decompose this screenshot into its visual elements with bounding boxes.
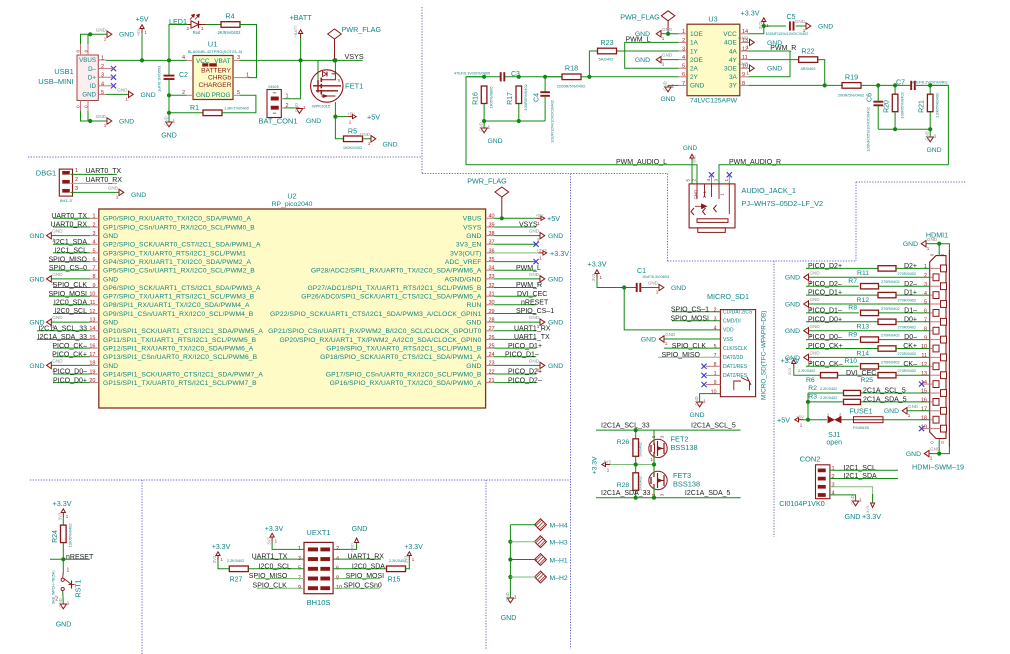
svg-text:GP12/SPI1_RX/UART0_TX/I2C0_SDA: GP12/SPI1_RX/UART0_TX/I2C0_SDA/PWM6_A <box>103 346 254 353</box>
ground symbol top shield <box>107 31 112 37</box>
svg-text:GND: GND <box>908 404 919 409</box>
svg-text:C6: C6 <box>867 93 874 102</box>
svg-text:PICO_CK+: PICO_CK+ <box>808 343 843 350</box>
svg-text:5: 5 <box>714 344 717 350</box>
svg-text:GND: GND <box>810 351 821 356</box>
ground symbol at U3 pin10 <box>748 67 749 69</box>
wire FET1 drain to VSYS <box>334 60 336 70</box>
svg-text:2: 2 <box>924 273 927 279</box>
svg-text:5: 5 <box>924 300 927 306</box>
net label SPIO_MISO UEXT pin7 <box>255 578 304 580</box>
svg-text:10UF/10%/10VDC/0402: 10UF/10%/10VDC/0402 <box>550 99 555 143</box>
svg-text:GP20/SPIO_RX/UART1_TX/PWM2_A/I: GP20/SPIO_RX/UART1_TX/PWM2_A/I2C0_SDA/CL… <box>280 337 482 344</box>
svg-text:GND: GND <box>56 622 72 629</box>
svg-text:PROG: PROG <box>212 92 231 99</box>
net label SPIO_CLK UEXT pin9 <box>257 587 304 589</box>
svg-text:GND: GND <box>306 118 321 125</box>
svg-text:I2C1_SDA: I2C1_SDA <box>54 239 87 246</box>
svg-text:16: 16 <box>921 398 927 404</box>
section border dashed lines <box>28 156 422 158</box>
svg-text:GND: GND <box>196 92 211 99</box>
capacitor C3 <box>500 72 502 81</box>
svg-text:GND: GND <box>665 332 676 337</box>
svg-text:8: 8 <box>924 326 927 332</box>
no-connect HDMI pin14 <box>923 383 930 385</box>
net label UART1_TX UEXT pin3 <box>254 558 304 560</box>
svg-text:GP16/SPIO_RX/UART0_TX/I2C0_SDA: GP16/SPIO_RX/UART0_TX/I2C0_SDA/PWM0_A <box>330 380 482 387</box>
svg-text:GP3/SPIO_TX/UART0_RTS/I2C1_SCL: GP3/SPIO_TX/UART0_RTS/I2C1_SCL/PWM1 <box>103 250 246 257</box>
node VBUS rail <box>106 59 187 61</box>
svg-text:MICRO_SD1: MICRO_SD1 <box>707 292 749 301</box>
svg-text:GND: GND <box>850 495 855 504</box>
net label UART1_RX UEXT pin4 <box>333 558 381 560</box>
svg-text:GND: GND <box>360 132 371 137</box>
svg-text:GND: GND <box>693 155 697 164</box>
svg-text:4: 4 <box>706 178 711 181</box>
svg-text:4Y: 4Y <box>729 57 738 64</box>
capacitor C6 <box>877 85 879 101</box>
net label UART1_RX at U2 pin 27 <box>494 330 536 332</box>
svg-text:GND: GND <box>352 526 368 533</box>
svg-text:U1: U1 <box>208 40 218 49</box>
svg-text:R18: R18 <box>565 64 578 73</box>
svg-text:GND: GND <box>689 412 704 419</box>
svg-text:GP9/SPI1_CSn/UART1_RX/I2C0_SCL: GP9/SPI1_CSn/UART1_RX/I2C0_SCL/PWM4_B <box>103 311 254 318</box>
svg-text:2200R/5%/0402: 2200R/5%/0402 <box>557 83 586 88</box>
svg-text:2K/0402: 2K/0402 <box>638 475 643 491</box>
wire +3.3V node to SD VDD pin <box>624 288 720 330</box>
svg-text:10uF/6.3V/0603: 10uF/6.3V/0603 <box>642 275 669 279</box>
svg-text:9: 9 <box>714 380 717 386</box>
svg-text:PICO_D1+: PICO_D1+ <box>508 343 542 350</box>
USB1 pin stubs <box>98 59 106 61</box>
svg-text:1: 1 <box>539 256 542 261</box>
svg-text:SPIO_CLK: SPIO_CLK <box>672 343 707 350</box>
svg-text:GND: GND <box>29 233 44 240</box>
svg-text:1: 1 <box>662 36 665 41</box>
svg-text:3V3_EN: 3V3_EN <box>456 242 482 249</box>
svg-text:FUSE1: FUSE1 <box>849 406 872 415</box>
resistor R28 <box>635 465 637 474</box>
ground symbol at U2 pin 3 <box>51 235 90 237</box>
resistor R14 <box>878 346 896 351</box>
ground symbol at U2 pin 13 <box>51 321 90 323</box>
svg-text:2OE: 2OE <box>690 57 703 64</box>
svg-text:GP19/SPIO_TX/UART0_RTS/I2C1_SC: GP19/SPIO_TX/UART0_RTS/I2C1_SCL/PWM1_B <box>326 346 482 353</box>
svg-text:1: 1 <box>908 413 911 418</box>
svg-text:+3.3V: +3.3V <box>592 456 599 474</box>
svg-text:12: 12 <box>921 362 927 368</box>
svg-text:5: 5 <box>101 90 104 96</box>
ground symbol at U3 pin4 <box>661 59 679 61</box>
wire CON2 pin1 I2C1_SCL <box>830 469 898 471</box>
net label I2C1A_SCL_33 at U2 pin 14 <box>37 330 90 332</box>
svg-text:VDD: VDD <box>723 328 734 334</box>
svg-text:GND: GND <box>383 141 398 148</box>
svg-text:SPIO_CLK: SPIO_CLK <box>253 583 288 590</box>
svg-text:GND: GND <box>663 81 668 90</box>
net label SPIO_MOSI to SD <box>672 320 720 322</box>
svg-text:270R/0402: 270R/0402 <box>881 360 900 364</box>
svg-text:GND: GND <box>52 272 63 277</box>
svg-text:GP6/SPIO_SCK/UART1_CTS/I2C1_SD: GP6/SPIO_SCK/UART1_CTS/I2C1_SDA/PWM3_A <box>103 285 261 292</box>
svg-text:I2C1_SCL: I2C1_SCL <box>55 248 87 255</box>
svg-text:CK+: CK+ <box>903 343 917 350</box>
svg-text:0: 0 <box>940 441 945 444</box>
resistor R16 <box>481 86 487 104</box>
svg-text:C4: C4 <box>534 93 541 102</box>
svg-text:U2: U2 <box>287 192 296 201</box>
svg-text:R8: R8 <box>848 305 857 312</box>
svg-text:+BATT: +BATT <box>293 25 298 38</box>
svg-text:30: 30 <box>489 300 495 306</box>
wire 2Y node to filter <box>466 76 501 78</box>
mounting hole M&#8211;H3 <box>535 536 547 548</box>
node main rail to FET1 <box>240 59 363 61</box>
svg-text:2: 2 <box>692 178 697 181</box>
svg-text:ADC_VREF: ADC_VREF <box>445 259 482 266</box>
svg-text:M–H2: M–H2 <box>550 575 568 582</box>
svg-text:GND: GND <box>505 592 510 601</box>
svg-text:VBUS: VBUS <box>463 216 482 223</box>
wire PWM_AUDIO_R <box>719 165 948 184</box>
svg-text:GND: GND <box>52 315 63 320</box>
svg-text:PICO_D2+: PICO_D2+ <box>508 369 542 376</box>
svg-text:GND: GND <box>548 276 563 283</box>
wire CON2 pin4 to GND <box>830 495 856 501</box>
wire U3 pin3 to R23 <box>616 50 679 52</box>
svg-text:6: 6 <box>924 309 927 315</box>
svg-text:GND: GND <box>82 92 96 99</box>
svg-text:0: 0 <box>76 105 81 108</box>
svg-text:R19: R19 <box>845 73 858 82</box>
svg-text:CON2: CON2 <box>800 454 821 463</box>
svg-text:4: 4 <box>924 291 927 297</box>
svg-text:UART0_RX: UART0_RX <box>51 222 88 229</box>
svg-text:1: 1 <box>859 498 862 503</box>
svg-text:U3: U3 <box>708 15 717 24</box>
net label PWM_R at U2 pin 32 <box>494 287 536 289</box>
svg-text:DVI_CEC: DVI_CEC <box>517 291 547 298</box>
U1 pin stubs and numbers <box>187 59 193 61</box>
ground symbol below SD <box>696 402 702 407</box>
svg-text:PICO_CK–: PICO_CK– <box>808 361 843 368</box>
svg-text:I2C0_SCL: I2C0_SCL <box>259 563 291 570</box>
svg-text:18: 18 <box>921 415 927 421</box>
wire C1 to GND <box>640 287 659 289</box>
mounting hole M&#8211;H2 <box>535 571 547 583</box>
svg-text:1: 1 <box>934 134 937 139</box>
net label PWM_L at U2 pin 34 <box>494 269 536 271</box>
svg-text:GND: GND <box>117 88 128 93</box>
svg-text:3: 3 <box>660 435 665 438</box>
svg-text:PICO_CK–: PICO_CK– <box>52 343 87 350</box>
resistor R6 <box>821 373 838 378</box>
svg-text:GND: GND <box>694 396 699 405</box>
svg-text:GND: GND <box>694 190 699 200</box>
svg-text:GP10/SPI1_SCK/UART1_CTS/I2C1_S: GP10/SPI1_SCK/UART1_CTS/I2C1_SDA/PWM5_A <box>103 328 263 335</box>
svg-text:BLA054B–42TPRG(SOT23–5): BLA054B–42TPRG(SOT23–5) <box>188 49 243 54</box>
svg-text:1: 1 <box>600 275 603 280</box>
net label SPIO_CS-1 at U2 pin 29 <box>494 313 536 315</box>
svg-text:SPIO_MOSI: SPIO_MOSI <box>346 573 385 580</box>
connector USB1 body <box>77 55 98 101</box>
svg-text:2A: 2A <box>690 66 699 73</box>
svg-text:1: 1 <box>720 193 725 196</box>
svg-text:CD/DAT2/CS: CD/DAT2/CS <box>723 310 753 316</box>
net label PICO_D0- at U2 pin 19 <box>53 373 90 375</box>
no-connect SD pins 8 1 9 <box>706 365 720 367</box>
svg-text:GND: GND <box>690 83 705 90</box>
svg-text:PICO_D1+: PICO_D1+ <box>808 290 842 297</box>
svg-text:+3.3V: +3.3V <box>53 499 72 508</box>
svg-text:1: 1 <box>104 36 107 41</box>
svg-text:HDMI–SWM–19: HDMI–SWM–19 <box>912 463 964 472</box>
svg-text:GND: GND <box>351 543 355 552</box>
svg-text:+5V: +5V <box>536 213 544 218</box>
svg-text:AGND/GND: AGND/GND <box>445 276 482 283</box>
svg-text:I2C1A_SCL_33: I2C1A_SCL_33 <box>601 422 650 429</box>
wire DBG1 pin3 to GND <box>70 191 119 193</box>
wire VSYS rail to FET1 gate <box>317 60 319 79</box>
svg-text:R24: R24 <box>52 530 59 543</box>
net label VSYS at U2 pin 39 <box>494 226 536 228</box>
svg-text:+3.3V: +3.3V <box>741 9 760 18</box>
svg-text:R12: R12 <box>857 297 870 304</box>
svg-text:GND: GND <box>930 447 941 452</box>
svg-text:2.2K/0402: 2.2K/0402 <box>227 559 244 563</box>
svg-text:1: 1 <box>368 141 371 146</box>
svg-text:DAT2/RES: DAT2/RES <box>723 373 748 379</box>
net label PICO_D1- row <box>806 312 859 314</box>
svg-text:GND: GND <box>906 451 921 458</box>
svg-text:3V3: 3V3 <box>212 555 217 563</box>
svg-text:1: 1 <box>488 125 491 130</box>
svg-text:3: 3 <box>714 178 719 181</box>
svg-text:GND: GND <box>141 92 156 99</box>
svg-text:D–: D– <box>88 66 96 73</box>
svg-text:M–H3: M–H3 <box>550 540 568 547</box>
svg-text:SPIO_CSn0: SPIO_CSn0 <box>344 583 382 590</box>
svg-text:GND: GND <box>925 131 930 140</box>
resistor R26 <box>635 430 637 439</box>
svg-text:GND: GND <box>58 598 63 607</box>
ground symbol left filter <box>483 121 485 128</box>
svg-text:1: 1 <box>656 290 659 295</box>
svg-text:I2C0_SDA: I2C0_SDA <box>54 300 87 307</box>
net label nRESET at U2 pin 30 <box>494 304 536 306</box>
svg-text:R22: R22 <box>801 47 814 56</box>
svg-text:8: 8 <box>714 362 717 368</box>
svg-text:1: 1 <box>125 97 128 102</box>
svg-text:270R/0402: 270R/0402 <box>881 280 900 284</box>
transistor FET2 BSS138 <box>649 439 667 457</box>
resistor R11 <box>878 266 896 271</box>
svg-text:CHARGER: CHARGER <box>199 82 232 89</box>
net label UART0_RX at U2 pin 2 <box>53 226 90 228</box>
svg-text:3V3: 3V3 <box>58 512 63 520</box>
svg-text:CK–: CK– <box>903 361 917 368</box>
svg-text:GP27/ADC1/SPI1_TX/UART1_RTS/I2: GP27/ADC1/SPI1_TX/UART1_RTS/I2C1_SCL/PWM… <box>307 285 481 292</box>
mounting hole M&#8211;H4 <box>535 519 547 531</box>
svg-text:+5V: +5V <box>347 112 355 117</box>
power symbol +3.3V at U2 pin36 <box>494 252 539 254</box>
wire DBG1 pin1 UART0_TX <box>70 173 117 175</box>
svg-text:R4: R4 <box>225 12 234 21</box>
svg-text:GND: GND <box>466 233 481 240</box>
net label PICO_D2+ row <box>806 267 878 269</box>
svg-text:R9: R9 <box>848 331 857 338</box>
svg-text:GND: GND <box>29 363 44 370</box>
svg-text:GND: GND <box>103 363 118 370</box>
wire output node down to PWM_AUDIO_R <box>930 85 948 164</box>
svg-text:D1+: D1+ <box>904 290 917 297</box>
ground symbol HDMI shell top <box>937 242 941 246</box>
resistor R20 <box>894 85 896 94</box>
svg-text:GP0/SPIO_RX/UART0_TX/I2C0_SDA/: GP0/SPIO_RX/UART0_TX/I2C0_SDA/PWM0_A <box>103 216 251 223</box>
ground symbol BAT_CON1 <box>296 107 300 109</box>
ground symbol at U2 pin 38 <box>494 235 540 237</box>
svg-text:1: 1 <box>275 539 278 544</box>
svg-text:UART0_TX: UART0_TX <box>51 213 87 220</box>
svg-text:GND: GND <box>294 103 299 112</box>
svg-text:GND: GND <box>131 192 146 199</box>
svg-text:GND: GND <box>785 301 800 308</box>
svg-text:FS4063S: FS4063S <box>853 425 870 430</box>
svg-text:1: 1 <box>651 457 654 462</box>
svg-text:open: open <box>826 439 842 446</box>
svg-text:SPIO_MOSI: SPIO_MOSI <box>48 291 87 298</box>
svg-text:74LVC125APW: 74LVC125APW <box>690 97 738 104</box>
svg-text:270R/0402: 270R/0402 <box>881 307 900 311</box>
svg-text:270R/0402: 270R/0402 <box>898 325 917 329</box>
audio jack bottom plate <box>697 219 728 223</box>
ground symbol right of R5 <box>371 136 376 142</box>
svg-text:PICO_D0+: PICO_D0+ <box>808 316 842 323</box>
svg-text:3V3: 3V3 <box>266 537 271 545</box>
svg-text:+5V: +5V <box>136 29 141 37</box>
net label PICO_D0- row <box>806 339 859 341</box>
wire C5 to GND <box>796 25 806 27</box>
svg-text:4R/0402: 4R/0402 <box>800 66 816 71</box>
svg-text:UART1_TX: UART1_TX <box>252 554 288 561</box>
net label UART0_TX at U2 pin 1 <box>53 217 90 219</box>
wire mounting hole bus <box>509 525 511 598</box>
svg-text:270R/0402: 270R/0402 <box>898 299 917 303</box>
svg-text:RUN: RUN <box>467 302 482 309</box>
svg-text:0: 0 <box>930 441 935 444</box>
svg-text:13: 13 <box>921 371 927 377</box>
ground symbol HDMI shell bottom <box>937 452 941 456</box>
svg-text:4: 4 <box>714 326 717 332</box>
ground symbol HDMI pin17 <box>907 410 930 412</box>
ground symbol at SD VSS <box>664 338 720 340</box>
svg-text:GP28/ADC2/SPI1_RX/UART0_TX/I2C: GP28/ADC2/SPI1_RX/UART0_TX/I2C0_SDA/PWM6… <box>311 268 482 275</box>
svg-text:GP26/ADC0/SPI1_SCK/UART1_CTS/I: GP26/ADC0/SPI1_SCK/UART1_CTS/I2C1_SDA/PW… <box>301 294 482 301</box>
svg-text:WPK2015: WPK2015 <box>312 103 331 108</box>
wires filter bottoms to ground rail <box>483 104 485 122</box>
wire shield top to GND <box>81 34 91 44</box>
svg-text:1: 1 <box>930 456 933 461</box>
svg-text:GND: GND <box>529 358 540 363</box>
svg-text:GP11/SPI1_TX/UART1_RTS/I2C1_SC: GP11/SPI1_TX/UART1_RTS/I2C1_SCL/PWM5_B <box>103 337 257 344</box>
wire U3 pin8 3Y output rail <box>748 84 842 86</box>
net label I2C0_SDA UEXT pin6 <box>333 568 387 570</box>
svg-text:I2C1A_SCL_33: I2C1A_SCL_33 <box>38 326 87 333</box>
net label I2C0_SCL UEXT pin5 <box>218 560 229 569</box>
svg-text:PICO_D2–: PICO_D2– <box>808 281 842 288</box>
ground symbol right filter <box>929 129 931 137</box>
svg-text:I2C1A_SDA_33: I2C1A_SDA_33 <box>601 490 651 497</box>
svg-text:DVI_CEC: DVI_CEC <box>846 370 876 377</box>
svg-text:R5: R5 <box>348 127 357 136</box>
net label PICO_D1+ at U2 pin 25 <box>494 347 536 349</box>
ground symbol below CON2 <box>852 501 858 506</box>
svg-text:1: 1 <box>104 123 107 128</box>
svg-text:ID: ID <box>90 83 97 90</box>
svg-text:D0+: D0+ <box>904 316 917 323</box>
svg-text:GND: GND <box>767 66 782 73</box>
wire +5V to VBUS rail <box>141 33 143 60</box>
svg-text:DAT0/3D: DAT0/3D <box>723 355 744 361</box>
svg-text:SPIO_CS–1: SPIO_CS–1 <box>671 306 709 313</box>
wire U3 pin6 2Y to node <box>589 76 678 78</box>
svg-text:1: 1 <box>832 466 835 472</box>
svg-text:R7: R7 <box>848 278 857 285</box>
svg-text:4A: 4A <box>729 48 738 55</box>
svg-text:GND: GND <box>818 24 833 31</box>
svg-text:RP_pico2040: RP_pico2040 <box>272 201 313 208</box>
ground symbol at U2 pin 23 <box>494 364 540 366</box>
wire R22 to 3Y output node <box>818 60 825 86</box>
net label PICO_D0+ at U2 pin 20 <box>53 382 90 384</box>
svg-text:D0–: D0– <box>904 334 917 341</box>
svg-text:1: 1 <box>665 341 668 346</box>
net label PICO_D1+ row <box>806 294 878 296</box>
svg-text:UART0_RX: UART0_RX <box>86 177 123 184</box>
svg-text:VBUS: VBUS <box>79 57 96 64</box>
svg-text:GP15/SPI1_TX/UART0_RTS/I2C1_SC: GP15/SPI1_TX/UART0_RTS/I2C1_SCL/PWM7_B <box>103 380 257 387</box>
svg-text:GP22/SPIO_SCK/UART1_CTS/I2C1_S: GP22/SPIO_SCK/UART1_CTS/I2C1_SDA/PWM3_A/… <box>270 311 482 318</box>
ground symbol USB pin5 <box>129 91 134 97</box>
net label SPIO_CS-0 at U2 pin 7 <box>49 269 90 271</box>
svg-text:GND: GND <box>52 358 63 363</box>
svg-text:2.2K/0402: 2.2K/0402 <box>798 369 815 373</box>
wire U3 pin1 to GND and PWR_FLAG <box>661 33 679 35</box>
svg-text:BSS138: BSS138 <box>673 479 700 488</box>
svg-text:USB1: USB1 <box>54 67 74 76</box>
svg-text:I2C1A_SDA_5: I2C1A_SDA_5 <box>685 490 731 497</box>
svg-text:+3.3V: +3.3V <box>588 260 607 269</box>
svg-text:R3: R3 <box>808 394 817 401</box>
svg-text:UART1_RX: UART1_RX <box>514 326 551 333</box>
svg-text:10K/5%/0402: 10K/5%/0402 <box>67 523 72 548</box>
wire C7 to output node <box>915 84 949 86</box>
svg-text:MICRO_SD(TFC–WPAPR–DB): MICRO_SD(TFC–WPAPR–DB) <box>761 311 768 400</box>
svg-text:5: 5 <box>92 248 95 254</box>
net label PICO_CK+ row <box>806 348 878 350</box>
svg-text:+5V: +5V <box>367 113 380 122</box>
svg-text:1: 1 <box>703 399 706 404</box>
svg-text:+3.3V: +3.3V <box>265 526 284 533</box>
svg-text:GND: GND <box>103 233 118 240</box>
svg-text:GP4/SPIO_RX/UART1_TX/I2C0_SDA/: GP4/SPIO_RX/UART1_TX/I2C0_SDA/PWM2_A <box>103 259 251 266</box>
svg-text:D1–: D1– <box>904 308 917 315</box>
capacitor C4 <box>544 77 546 92</box>
net label SPIO_MOSI at U2 pin 10 <box>49 295 90 297</box>
svg-text:7: 7 <box>714 353 717 359</box>
svg-text:4: 4 <box>101 81 104 87</box>
